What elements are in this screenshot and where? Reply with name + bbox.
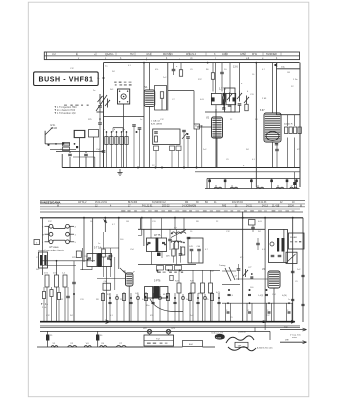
svg-text:1n: 1n [288,299,290,301]
svg-text:c: c [104,129,105,131]
svg-text:6 67: 6 67 [260,110,265,112]
svg-text:4,7: 4,7 [235,276,238,278]
svg-text:47k: 47k [150,315,153,317]
svg-text:MATUVU: MATUVU [163,53,173,56]
svg-text:15.11.21.51: 15.11.21.51 [95,202,108,204]
svg-text:TAP: TAP [238,344,242,347]
svg-text:F4,L31.91: F4,L31.91 [142,205,153,207]
svg-text:103.F: 103.F [222,53,229,56]
svg-text:M: M [57,205,59,207]
svg-text:1P T5: 1P T5 [154,234,161,237]
svg-text:47k: 47k [240,257,243,259]
svg-text:T ↑ t □: T ↑ t □ [41,303,48,306]
svg-text:M W: M W [252,53,258,56]
svg-text:RANGES/GAMA: RANGES/GAMA [40,200,61,204]
svg-text:C45: C45 [104,281,107,283]
svg-text:FUSE: FUSE [216,337,222,339]
svg-text:33: 33 [277,186,279,188]
svg-text:R45: R45 [222,205,227,207]
svg-text:47k: 47k [155,69,158,71]
svg-text:A.M. (M/W): A.M. (M/W) [151,122,162,125]
svg-text:1n: 1n [98,243,100,245]
svg-text:JW 31,2: JW 31,2 [78,202,87,204]
svg-text:4O2.45 94: 4O2.45 94 [232,202,243,204]
svg-text:250/350: 250/350 [238,332,246,334]
svg-text:M 41.33: M 41.33 [258,202,267,204]
svg-text:U.2: U.2 [52,53,56,56]
svg-text:24,31: 24,31 [246,205,252,207]
svg-text:12: 12 [231,186,233,188]
svg-text:HU: HU [130,53,134,56]
svg-text:1M: 1M [60,299,63,301]
svg-text:13 6: 13 6 [233,66,238,69]
svg-text:BUSH - VHF81: BUSH - VHF81 [38,77,93,84]
svg-text:1M: 1M [126,221,129,223]
svg-text:3,M: 3,M [107,294,111,296]
svg-text:4(00)4 R: 4(00)4 R [284,124,293,126]
svg-text:W JA N.4: W JA N.4 [186,53,197,56]
svg-text:C77: C77 [248,267,251,269]
svg-text:FM/AM: FM/AM [290,236,297,239]
svg-text:19E: 19E [285,339,289,341]
svg-text:d: d [114,129,115,131]
svg-text:2O5 22: 2O5 22 [162,205,170,207]
svg-text:4,(M): 4,(M) [282,295,287,297]
svg-text:C35: C35 [84,256,87,258]
svg-text:12: 12 [257,186,259,188]
svg-text:47k: 47k [297,149,300,151]
svg-text:49/1M: 49/1M [51,128,57,130]
svg-text:M(1): M(1) [198,293,202,295]
svg-text:1M: 1M [287,72,290,74]
svg-text:2O34: 2O34 [288,205,294,207]
svg-text:Tuning: Tuning [219,265,226,267]
svg-text:BLTL303: BLTL303 [128,202,138,204]
svg-text:1 T4 function 1,M: 1 T4 function 1,M [57,112,75,115]
svg-text:viewed from under chassis: viewed from under chassis [38,249,65,252]
svg-text:31.41B: 31.41B [272,205,280,207]
svg-text:1n: 1n [140,119,142,121]
svg-text:34,13: 34,13 [262,205,268,207]
svg-text:A 300 B 250 volts: A 300 B 250 volts [257,347,273,350]
svg-text:L.: L. [76,53,78,56]
svg-text:47: 47 [291,186,293,188]
svg-text:M: M [300,205,302,207]
svg-text:QAAN.L: QAAN.L [105,53,114,56]
svg-text:mains: mains [292,337,297,339]
svg-text:SVIZFIER: SVIZFIER [266,53,277,56]
svg-text:33: 33 [215,186,217,188]
svg-text:E.W.: E.W. [51,125,56,127]
svg-text:.M.A: .M.A [146,53,151,56]
svg-text:1,4(2): 1,4(2) [258,295,264,297]
svg-text:14,3O5MA2M: 14,3O5MA2M [182,204,196,207]
svg-text:4,(1): 4,(1) [216,292,220,294]
svg-text:GHU: GHU [240,53,246,56]
svg-text:5 PT6: 5 PT6 [154,279,161,282]
svg-text:U/T wave: U/T wave [49,247,59,249]
svg-text:34,N2O43 L2: 34,N2O43 L2 [152,202,166,204]
